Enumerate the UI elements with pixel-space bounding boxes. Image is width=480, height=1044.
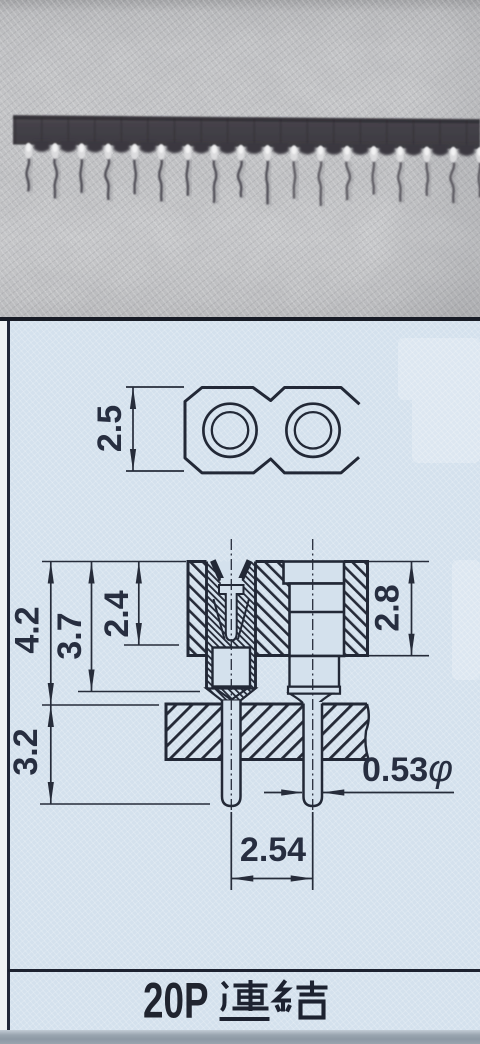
PCB board hatched [166,704,369,760]
extension line pin tip [40,803,210,805]
left socket mouth [221,578,242,586]
centerline right contact [312,539,314,810]
svg-text:2.8: 2.8 [369,584,407,631]
extension line housing bottom right [369,655,429,657]
board outline [166,704,367,760]
left socket outer wall left [205,562,208,689]
left socket sleeve wall hatch [207,562,256,647]
top view right socket hole inner [295,412,331,448]
pin wires [27,157,480,206]
kanji REN (connect) [220,980,270,1019]
dimension 4.2 [50,562,52,706]
dimension 2.4 [138,562,140,646]
svg-text:3.7: 3.7 [51,612,89,659]
top view left socket hole inner [212,412,248,448]
left socket spring finger lines [214,599,225,639]
svg-text:3.2: 3.2 [7,728,45,775]
kanji KETSU (tie) [276,981,328,1018]
left socket T-slot [219,585,244,641]
connector housing bar [13,115,480,149]
svg-text:2.5: 2.5 [91,405,129,452]
pin highlights [25,143,480,163]
left socket funnel interior [212,562,251,579]
dimension 3.7 [91,562,93,692]
svg-text:2.4: 2.4 [98,590,136,637]
right solder pin [304,704,323,807]
board broken right edge [365,704,368,760]
right contact press-fit step line [290,611,345,613]
dimension 2.5 extension lines [126,386,184,388]
dimension 2.8 [411,562,413,656]
left socket funnel chamfer left [213,561,222,581]
right contact body upper [290,584,345,657]
housing block hatched [188,562,368,656]
svg-text:4.2: 4.2 [9,606,47,653]
left socket lower wall hatch [207,647,214,688]
dimension 2.5 [132,387,134,471]
leader line 0.53 dia right [323,792,455,794]
pin shoulders [34,141,475,156]
blue drawing sheet [0,317,480,1044]
left socket funnel chamfer right [241,561,250,581]
left socket outer wall right [254,562,257,689]
top view outline of two joined sockets [185,388,360,473]
left socket tip inner V [213,687,251,700]
extension line housing top left [42,561,186,563]
photo grain [0,0,480,317]
extension line board top [42,704,159,706]
left socket clearing [207,562,256,701]
photo of 20P header strip [0,0,480,317]
left socket tip cone [207,689,256,701]
top view right socket hole outer [286,404,339,457]
photo cloth mottle [0,0,480,317]
pin wire shadows [29,158,480,207]
scan ghost patches [398,338,480,680]
housing outline [188,562,368,656]
board pin hole clearings [222,702,241,762]
left socket interior hollow [213,648,251,687]
top view left socket hole outer [203,404,256,457]
extension line socket tip [78,691,200,693]
dimension 2.54 [231,878,312,880]
extension line housing top right [369,561,429,563]
right contact body lower [290,656,340,687]
leader line 0.53 dia left [264,792,302,794]
dimension 3.2 [50,705,52,804]
svg-text:20P: 20P [143,973,209,1029]
left solder pin [222,701,241,807]
right contact flange [288,687,340,694]
right contact cone [290,694,332,704]
dimension 2.54 extension line right [312,812,314,890]
dimension 2.54 extension line left [230,812,232,890]
svg-text:2.54: 2.54 [240,831,306,869]
extension line contact depth [124,644,179,646]
right contact head [284,562,345,584]
centerline left contact [230,539,232,810]
svg-text:0.53φ: 0.53φ [362,748,453,790]
